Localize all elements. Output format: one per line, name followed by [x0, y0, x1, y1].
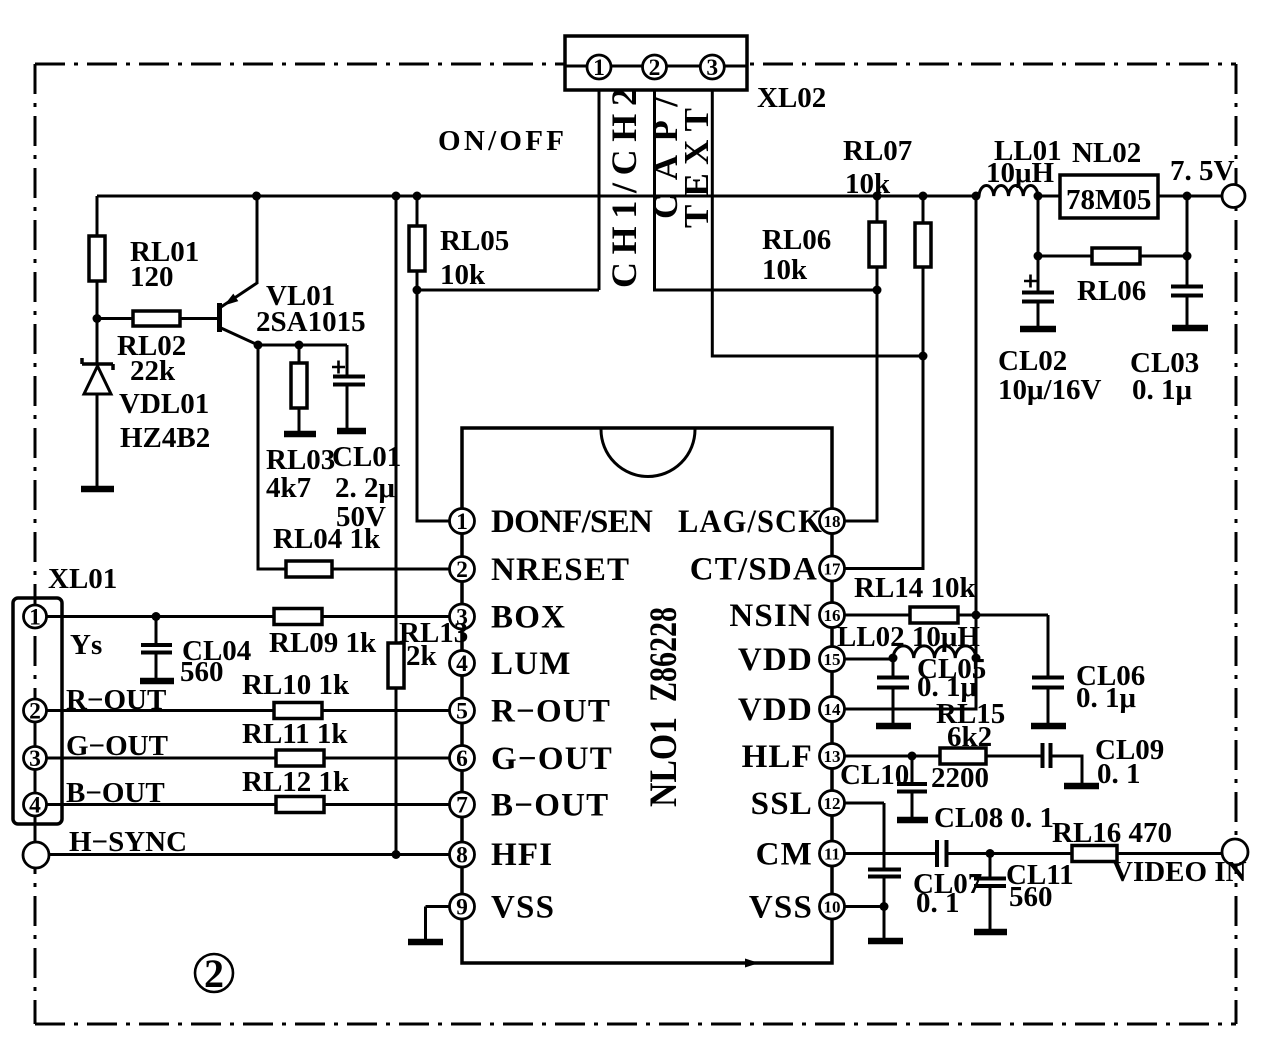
ground CL01 — [337, 428, 366, 435]
svg-text:H−SYNC: H−SYNC — [69, 826, 187, 858]
node rail/VDD branch — [972, 192, 981, 201]
wire RL05 top lead — [416, 196, 419, 226]
connector XL01 box — [13, 598, 62, 824]
svg-text:B−OUT: B−OUT — [66, 777, 165, 809]
ground pin 9 VSS — [408, 939, 443, 946]
svg-text:RL11 1k: RL11 1k — [242, 718, 348, 750]
svg-text:1: 1 — [593, 55, 605, 81]
svg-text:3: 3 — [29, 746, 41, 772]
svg-text:RL06: RL06 — [762, 224, 831, 256]
wire rail down to RL14 node — [975, 196, 978, 615]
wire RL09 to pin 3 BOX — [322, 615, 450, 618]
wire CL03 bottom to ground — [1186, 296, 1189, 326]
svg-text:LAG/SCK: LAG/SCK — [678, 504, 823, 540]
svg-text:4: 4 — [29, 793, 41, 819]
connector XL02 pin 3 — [700, 55, 724, 79]
node rail/RL13 — [392, 192, 401, 201]
wire pin 9 VSS to ground — [426, 907, 450, 940]
svg-text:2k: 2k — [406, 640, 438, 672]
svg-text:6k2: 6k2 — [947, 721, 992, 753]
regulator NL02 78M05 box — [1060, 175, 1158, 218]
wire output node down — [1186, 196, 1189, 256]
svg-text:HLF: HLF — [742, 739, 813, 775]
node RL03 top — [295, 341, 304, 350]
wire VL01 collector diagonal — [221, 328, 258, 345]
ground CL06 — [1031, 723, 1066, 730]
capacitor CL01 plus sign — [332, 361, 345, 374]
IC pin 2 — [450, 557, 475, 582]
ground VDL01 — [81, 486, 114, 493]
svg-text:RL07: RL07 — [843, 135, 912, 167]
transistor VL01 emitter arrow — [224, 294, 238, 306]
IC pin 6 — [450, 746, 475, 771]
svg-text:1: 1 — [456, 509, 468, 535]
wire CL06 bottom to ground — [1047, 688, 1050, 724]
wire VL01 emitter diagonal — [221, 283, 257, 307]
node CL03/RL06 — [1183, 252, 1192, 261]
connector XL02 box — [565, 36, 747, 90]
svg-text:RL06: RL06 — [1077, 275, 1146, 307]
resistor RL12 1k — [276, 797, 324, 813]
terminal 7.5V — [1222, 185, 1245, 208]
wire CL05 top lead — [892, 659, 895, 677]
resistor RL14 10k — [910, 607, 958, 623]
wire RL02 to base of VL01 — [180, 317, 218, 320]
svg-text:2: 2 — [456, 557, 468, 583]
node RL14/CL06 — [972, 611, 981, 620]
wire RL01 top lead — [96, 196, 99, 236]
svg-text:2. 2μ: 2. 2μ — [335, 472, 396, 504]
svg-text:DONF/SEN: DONF/SEN — [491, 504, 654, 540]
wire XL01 pin2-pin3 link — [34, 722, 37, 748]
svg-text:14: 14 — [824, 700, 842, 719]
svg-text:XL02: XL02 — [757, 82, 826, 114]
wire pin 15 to LL02 — [845, 658, 893, 661]
svg-text:VSS: VSS — [491, 890, 555, 926]
wire node C down to pin 17 — [845, 356, 923, 569]
wire CL04 top lead — [155, 617, 158, 646]
svg-text:R−OUT: R−OUT — [491, 694, 611, 730]
wire RL03 top lead — [298, 345, 301, 363]
wire CL09 to ground — [1051, 756, 1082, 783]
svg-text:SSL: SSL — [751, 786, 813, 822]
svg-text:10k: 10k — [762, 254, 808, 286]
ground CL09 — [1064, 783, 1099, 790]
svg-text:22k: 22k — [130, 355, 176, 387]
svg-text:CL08 0. 1: CL08 0. 1 — [934, 802, 1054, 834]
wire CL02 bottom to ground — [1037, 301, 1040, 326]
IC NL01 bottom arrow — [745, 959, 759, 968]
wire VL01 emitter to rail — [256, 196, 259, 284]
resistor RL09 1k — [274, 609, 322, 625]
resistor RL02 22k — [133, 311, 180, 326]
svg-text:3: 3 — [456, 605, 468, 631]
wire RL11 to pin 6 G-OUT — [324, 757, 450, 760]
svg-text:CM: CM — [756, 837, 813, 873]
capacitor CL02 plus sign — [1024, 275, 1037, 288]
wire CL07 bottom through node to ground — [883, 876, 886, 938]
resistor RL01 120 — [89, 236, 105, 281]
IC pin 11 — [820, 841, 845, 866]
connector XL01 pin 1 — [24, 605, 47, 628]
connector XL01 pin 2 — [24, 699, 47, 722]
wire RL04 to pin 2 NRESET — [332, 568, 449, 571]
node VSS/CL07 — [880, 902, 889, 911]
wire XL01 pin2 to RL10 — [46, 709, 274, 712]
transistor VL01 base bar — [217, 303, 222, 332]
IC pin 12 — [820, 791, 845, 816]
wire node RL05/XL02-1 — [417, 79, 599, 290]
IC pin 9 — [450, 894, 475, 919]
IC pin 18 — [820, 509, 845, 534]
svg-text:G−OUT: G−OUT — [491, 741, 613, 777]
wire RL13 bottom to H-SYNC node — [395, 688, 398, 855]
svg-text:0. 1: 0. 1 — [916, 887, 960, 919]
wire CL10 top lead — [911, 756, 914, 784]
resistor RL03 4k7 — [291, 363, 307, 408]
node RL07 bottom — [873, 286, 882, 295]
svg-text:Ys: Ys — [70, 629, 102, 661]
svg-text:10μ/16V: 10μ/16V — [998, 374, 1101, 406]
svg-text:RL12 1k: RL12 1k — [242, 766, 350, 798]
wire XL01 pin1 to RL09 — [46, 615, 274, 618]
svg-text:HFI: HFI — [491, 837, 553, 873]
svg-text:VSS: VSS — [749, 890, 813, 926]
node CL04 — [152, 612, 161, 621]
ground RL03 — [284, 431, 316, 438]
svg-text:0. 1μ: 0. 1μ — [1076, 682, 1137, 714]
svg-text:VDL01: VDL01 — [119, 388, 209, 420]
ground CL11 — [974, 929, 1007, 936]
svg-text:LL02 10μH: LL02 10μH — [837, 621, 980, 653]
svg-text:560: 560 — [1009, 881, 1053, 913]
zener diode VDL01 triangle — [84, 366, 111, 394]
svg-text:LUM: LUM — [491, 646, 572, 682]
svg-text:NL02: NL02 — [1072, 137, 1141, 169]
svg-text:VDD: VDD — [738, 642, 813, 678]
connector XL02 pin 2 — [643, 55, 667, 79]
wire CL11 bottom to ground — [989, 886, 992, 929]
IC right pin numbers — [824, 512, 842, 917]
wire CL03 top lead — [1186, 256, 1189, 286]
wire pin 10 VSS to node — [845, 905, 884, 908]
wire pin 16 to RL14 — [845, 614, 910, 617]
connector XL01 pin 3 — [24, 747, 47, 770]
capacitor CL11 560 plates — [974, 879, 1006, 887]
resistor RL10 1k — [274, 703, 322, 719]
node C RL06a bottom — [919, 352, 928, 361]
IC pin 10 — [820, 894, 845, 919]
svg-text:RL05: RL05 — [440, 225, 509, 257]
svg-text:RL10 1k: RL10 1k — [242, 669, 350, 701]
wire pin 13 to RL15 — [845, 755, 940, 758]
connector XL02 pin 1 — [587, 55, 611, 79]
resistor RL05 10k — [409, 226, 425, 271]
inductor LL01 10uH — [979, 185, 1038, 196]
wire XL02 pin2 to RL07 bottom — [655, 79, 878, 290]
wire VDL01 cathode lead — [96, 319, 99, 365]
svg-text:CT/SDA: CT/SDA — [690, 552, 818, 588]
wire RL06a top lead — [922, 196, 925, 223]
capacitor CL01 2.2u plates — [333, 377, 365, 385]
node HLF/CL10 — [908, 752, 917, 761]
svg-text:11: 11 — [824, 845, 840, 864]
terminal VIDEO IN — [1222, 839, 1248, 865]
IC pin 14 — [820, 697, 845, 722]
wire XL02 internal bus — [565, 65, 747, 68]
wire RL06a bottom lead — [922, 267, 925, 356]
svg-text:10μH: 10μH — [986, 157, 1054, 189]
ground CL05 — [876, 723, 911, 730]
node rail/RL06a — [919, 192, 928, 201]
wire LL02 node down to pin 14 — [845, 658, 976, 709]
wire VDL01 anode to ground — [96, 394, 99, 486]
svg-text:RL09 1k: RL09 1k — [269, 627, 377, 659]
capacitor CL09 0.1 plates — [1043, 743, 1051, 768]
wire RL12 to pin 7 B-OUT — [324, 803, 450, 806]
svg-text:CL10: CL10 — [840, 759, 909, 791]
resistor RL15 6k2 — [940, 748, 986, 764]
XL01 pin numbers — [29, 605, 41, 819]
wire CL10 bottom to ground — [911, 792, 914, 818]
wire CL01 bottom to ground — [346, 384, 349, 428]
svg-text:1: 1 — [29, 605, 41, 631]
svg-text:0. 1: 0. 1 — [1097, 758, 1141, 790]
svg-text:0. 1μ: 0. 1μ — [1132, 374, 1193, 406]
node NL02 output — [1183, 192, 1192, 201]
wire XL01 pin4 to H-SYNC terminal — [34, 816, 37, 843]
connector XL01 pin 4 — [24, 793, 47, 816]
wire CL08 to node D — [947, 852, 1072, 855]
ground CL04 — [140, 678, 174, 685]
inductor LL02 10uH — [893, 646, 976, 658]
svg-text:13: 13 — [824, 747, 841, 766]
svg-text:B−OUT: B−OUT — [491, 788, 609, 824]
wire RL10 to pin 5 R-OUT — [322, 709, 450, 712]
svg-text:NSIN: NSIN — [729, 598, 813, 634]
resistor RL16 470 — [1072, 846, 1117, 862]
svg-text:RL14 10k: RL14 10k — [854, 572, 977, 604]
wire RL14 node to LL02 node — [975, 615, 978, 658]
capacitor CL06 0.1u plates — [1032, 678, 1064, 688]
wire node to pin 1 DONF — [417, 290, 449, 521]
svg-text:18: 18 — [824, 512, 841, 531]
wire 7.5V node down to RL06 bypass — [1037, 196, 1040, 256]
capacitor CL05 0.1u plates — [877, 678, 909, 688]
IC left pin numbers — [456, 509, 468, 921]
resistor RL07 10k — [869, 222, 885, 267]
resistor RL13 2k — [388, 643, 404, 688]
ground CL03 — [1172, 325, 1208, 332]
IC NL01 Z86228 body — [462, 428, 832, 963]
XL02 pin numbers — [593, 55, 718, 81]
wire node B to RL02 — [97, 317, 133, 320]
capacitor CL08 0.1 plates — [937, 840, 947, 867]
ground CL02 — [1020, 326, 1056, 333]
svg-text:15: 15 — [824, 650, 841, 669]
svg-text:2: 2 — [204, 951, 224, 996]
wire pin 11 CM to CL08 — [845, 852, 936, 855]
svg-text:10k: 10k — [845, 168, 891, 200]
wire NL02 output to 7.5V terminal — [1158, 195, 1222, 198]
svg-text:17: 17 — [824, 560, 842, 579]
svg-text:2: 2 — [649, 55, 661, 81]
wire rail right of LL01 into NL02 — [1038, 195, 1060, 198]
IC pin 16 — [820, 603, 845, 628]
svg-text:HZ4B2: HZ4B2 — [120, 422, 210, 454]
resistor RL11 1k — [276, 750, 324, 766]
wire RL15 to CL09 — [986, 755, 1041, 758]
svg-text:9: 9 — [456, 895, 468, 921]
svg-text:7: 7 — [456, 793, 468, 819]
wire RL07 bottom lead — [876, 267, 879, 290]
IC pin 13 — [820, 744, 845, 769]
wire main supply rail — [97, 195, 979, 198]
IC pin 8 — [450, 842, 475, 867]
svg-text:CL02: CL02 — [998, 345, 1067, 377]
node LL02 right — [972, 654, 981, 663]
IC pin 15 — [820, 647, 845, 672]
node collector — [254, 341, 263, 350]
page number 2 circle — [195, 954, 233, 992]
wire RL07 top lead — [876, 196, 879, 222]
wire rail down to RL13 — [395, 196, 398, 643]
svg-text:7. 5V: 7. 5V — [1170, 155, 1235, 187]
node CL02/RL06 — [1034, 252, 1043, 261]
wire RL03 bottom to ground — [298, 408, 301, 431]
IC pin 1 — [450, 509, 475, 534]
svg-text:8: 8 — [456, 843, 468, 869]
ground CL07 — [868, 938, 903, 945]
svg-text:6: 6 — [456, 746, 468, 772]
svg-text:2SA1015: 2SA1015 — [256, 306, 366, 338]
svg-text:10k: 10k — [440, 259, 486, 291]
svg-text:R−OUT: R−OUT — [66, 684, 166, 716]
node RL05 bottom — [413, 286, 422, 295]
wire XL01 pin4 to RL12 — [46, 803, 276, 806]
wire XL01 pin3 to RL11 — [46, 757, 276, 760]
wire H-SYNC terminal to pin 8 HFI — [49, 853, 450, 856]
IC pin 4 — [450, 651, 475, 676]
resistor RL06 bypass — [1092, 248, 1140, 264]
wire CL02 top lead — [1037, 256, 1040, 292]
ground CL10 — [897, 817, 928, 824]
wire collector node to CL01 — [258, 345, 347, 376]
node D CM/CL11/RL16 — [986, 849, 995, 858]
svg-text:VIDEO IN: VIDEO IN — [1112, 856, 1247, 888]
wire RL01 bottom to node B — [96, 281, 99, 319]
capacitor CL03 0.1u plates — [1171, 287, 1203, 296]
node rail/emitter — [252, 192, 261, 201]
wire CL04 bottom lead — [155, 653, 158, 679]
wire XL01 pin3-pin4 link — [34, 769, 37, 794]
svg-text:3: 3 — [706, 55, 718, 81]
resistor RL04 1k — [286, 561, 332, 577]
svg-text:G−OUT: G−OUT — [66, 730, 168, 762]
wire CL11 top lead — [989, 854, 992, 879]
svg-text:560: 560 — [180, 656, 224, 688]
svg-text:RL16 470: RL16 470 — [1052, 817, 1172, 849]
svg-text:78M05: 78M05 — [1066, 184, 1151, 216]
wire XL02 pin3 to node C — [712, 79, 923, 356]
wire RL16 to VIDEO IN terminal — [1117, 853, 1223, 854]
wire collector node down to RL04 — [258, 345, 286, 569]
capacitor CL04 560 plates — [141, 645, 172, 653]
wire RL05 bottom lead — [416, 271, 419, 290]
wire RL06 bypass row — [1038, 255, 1187, 258]
node LL02 left — [889, 654, 898, 663]
svg-text:NRESET: NRESET — [491, 552, 630, 588]
svg-text:RL04 1k: RL04 1k — [273, 523, 381, 555]
IC NL01 notch — [601, 430, 695, 477]
node LL01/NL02 input — [1034, 192, 1043, 201]
resistor RL06a 10k — [915, 223, 931, 267]
IC pin 3 — [450, 604, 475, 629]
node rail/RL07 — [873, 192, 882, 201]
svg-text:XL01: XL01 — [48, 563, 117, 595]
svg-text:2200: 2200 — [931, 762, 989, 794]
svg-text:4k7: 4k7 — [266, 472, 311, 504]
node H-SYNC/RL13/HFI — [392, 850, 401, 859]
terminal H-SYNC — [23, 842, 49, 868]
node rail/RL05 — [413, 192, 422, 201]
svg-text:12: 12 — [824, 794, 841, 813]
IC pin 17 — [820, 556, 845, 581]
capacitor CL02 10u/16V plates — [1022, 293, 1054, 302]
node RL01/RL02/VDL01 — [93, 314, 102, 323]
svg-text:CL01: CL01 — [332, 441, 401, 473]
capacitor CL07 0.1 plates — [868, 870, 901, 877]
svg-text:10: 10 — [824, 898, 841, 917]
wire RL14 to node and CL06 branch — [958, 615, 1048, 677]
svg-text:4: 4 — [456, 651, 468, 677]
svg-text:2: 2 — [29, 699, 41, 725]
wire RL07 node down to pin 18 — [845, 290, 877, 521]
wire CL05 bottom to ground — [892, 688, 895, 724]
wire pin 12 SSL to CL07 — [845, 803, 884, 870]
svg-text:VDD: VDD — [738, 692, 813, 728]
svg-text:5: 5 — [456, 699, 468, 725]
svg-text:NLO1: NLO1 — [642, 717, 685, 807]
svg-text:120: 120 — [130, 261, 174, 293]
svg-text:Z86228: Z86228 — [642, 607, 685, 702]
IC pin 7 — [450, 792, 475, 817]
zener diode VDL01 HZ4B2 cathode bar — [82, 358, 113, 370]
svg-text:16: 16 — [824, 606, 841, 625]
svg-text:BOX: BOX — [491, 600, 566, 636]
IC pin 5 — [450, 698, 475, 723]
capacitor CL10 2200 plates — [897, 784, 927, 792]
